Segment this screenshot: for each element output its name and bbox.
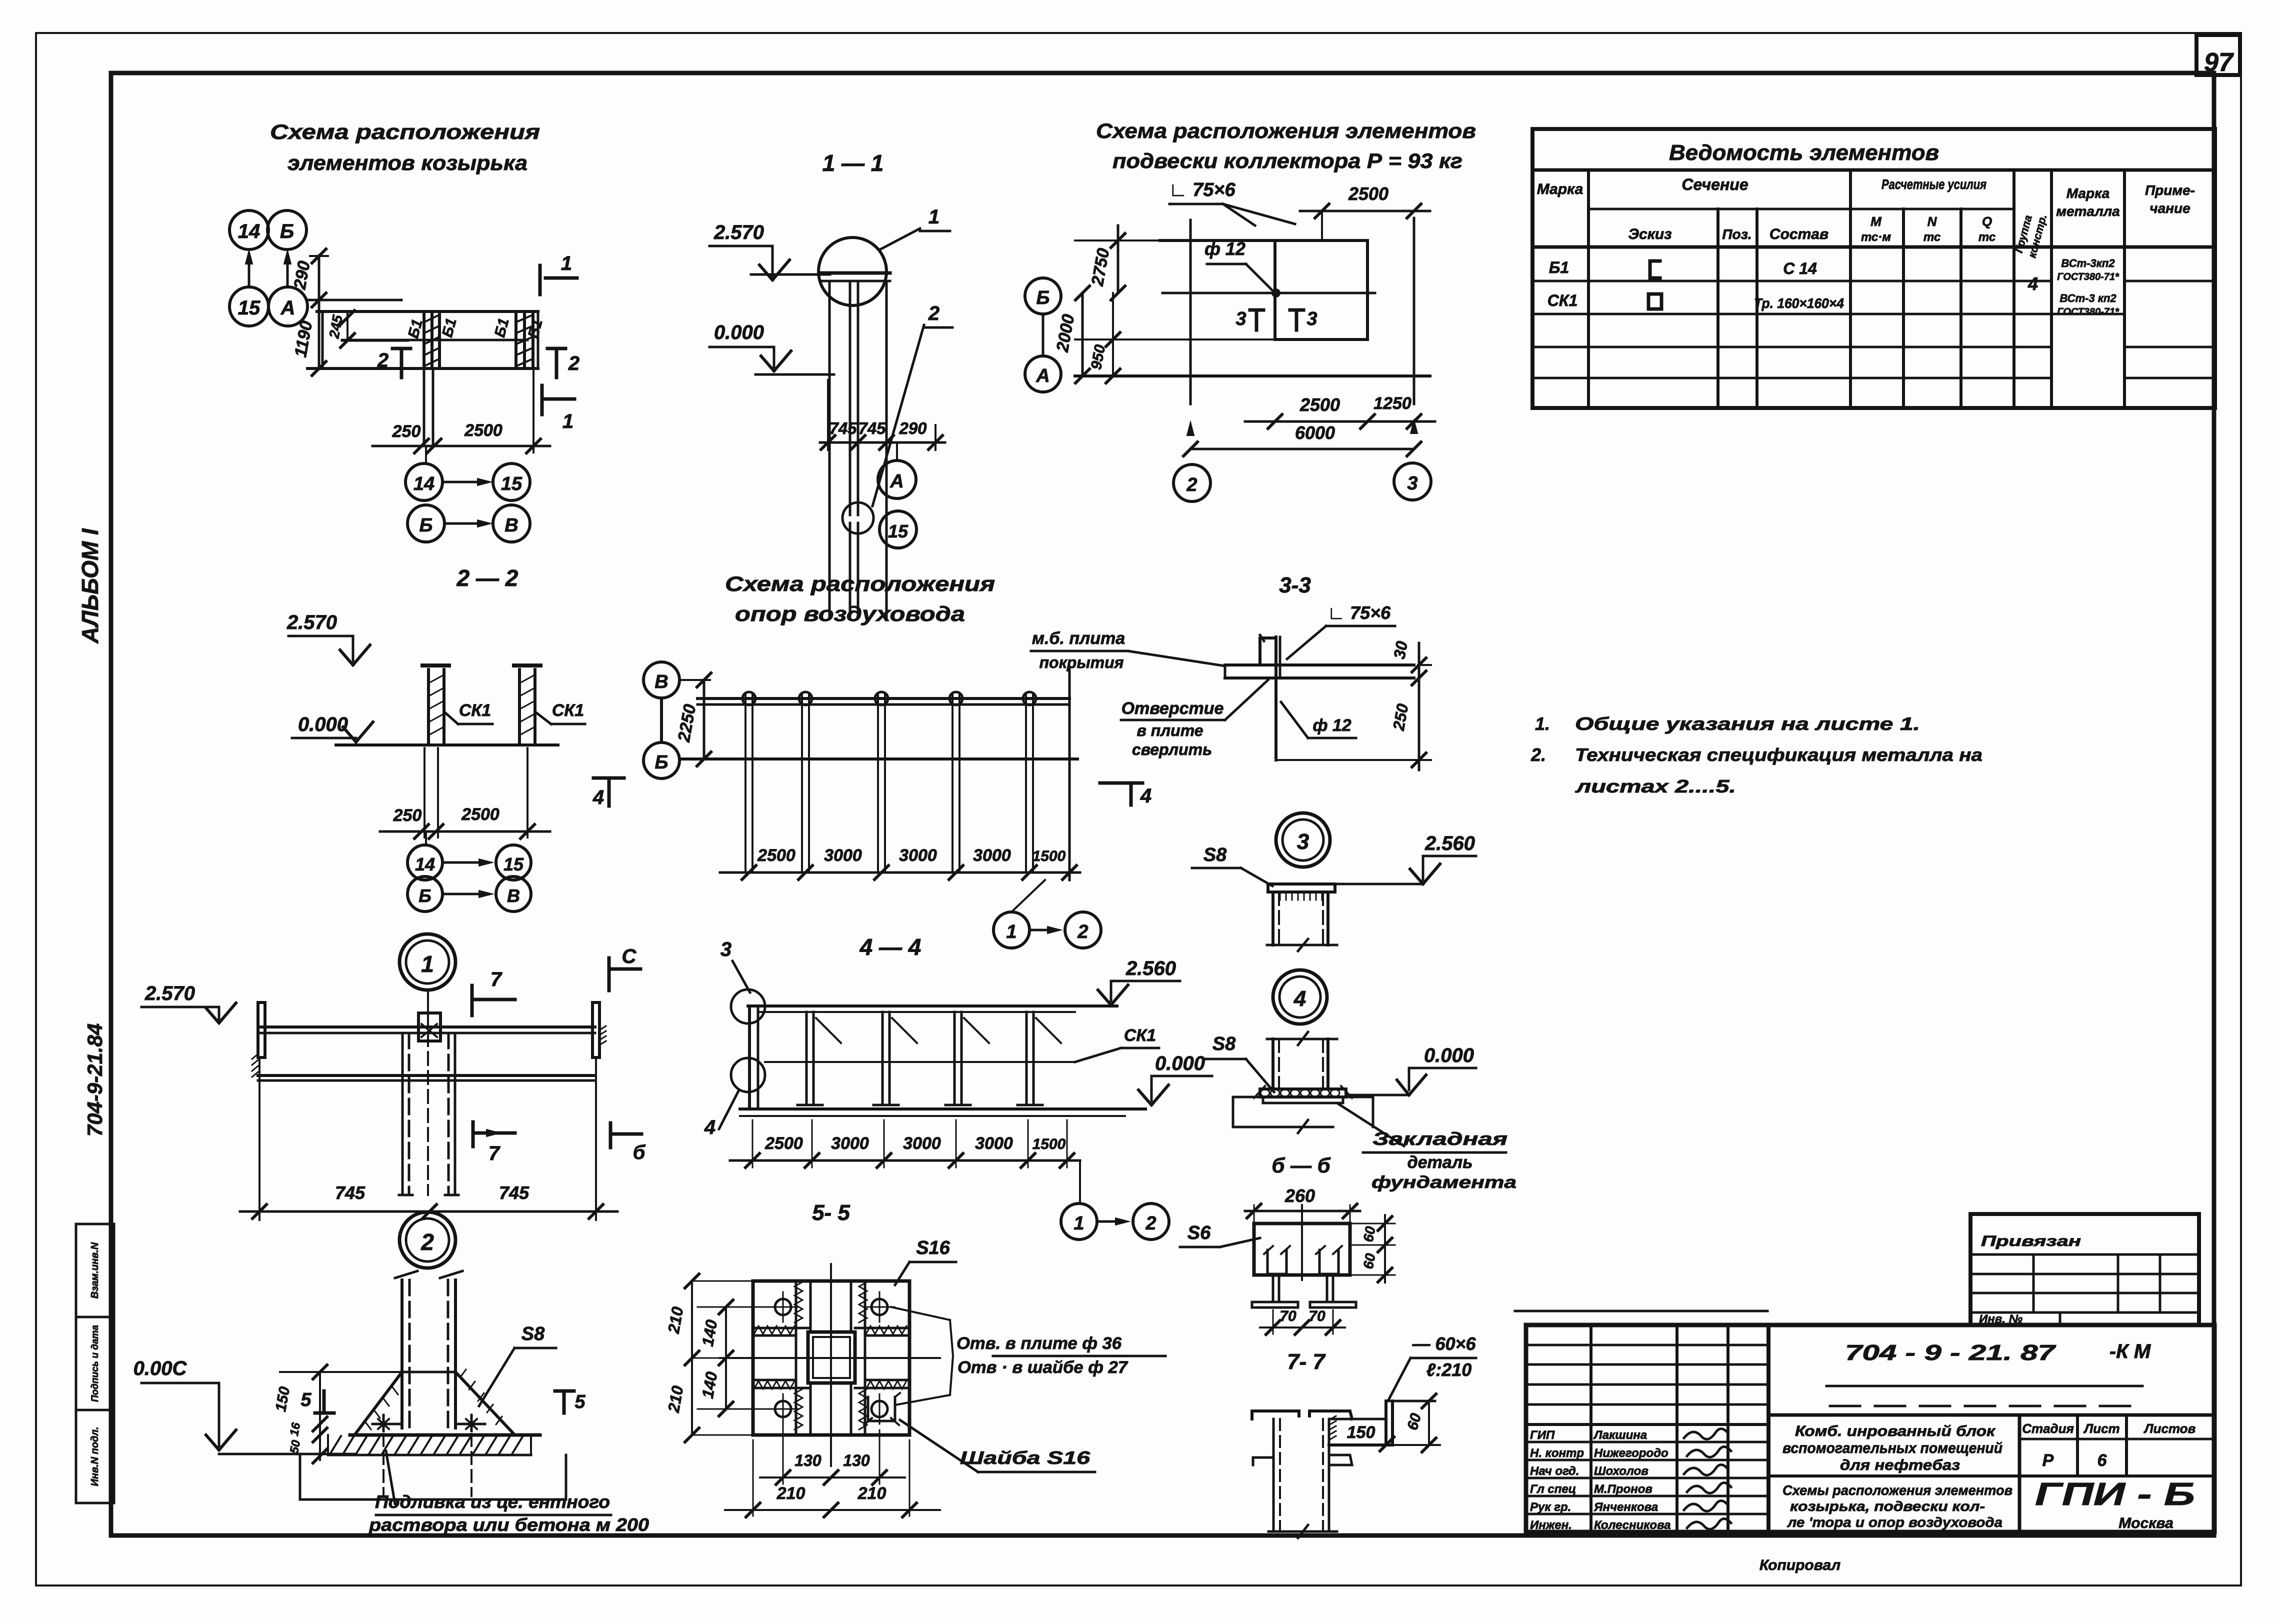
left gusset slope — [356, 1372, 402, 1433]
section mark 1 bottom — [540, 385, 544, 414]
svg-text:Поз.: Поз. — [1722, 226, 1751, 242]
bottom dims 130 130 210 210 — [782, 1419, 784, 1484]
svg-text:Расчетные усилия: Расчетные усилия — [1881, 176, 1986, 192]
dim 2500 top — [1300, 210, 1430, 212]
svg-text:5- 5: 5- 5 — [812, 1200, 850, 1225]
svg-text:1 — 1: 1 — 1 — [822, 150, 884, 176]
svg-text:Колесникова: Колесникова — [1594, 1518, 1671, 1532]
title row underline — [1532, 168, 2215, 172]
svg-text:Отв · в шайбе ф 27: Отв · в шайбе ф 27 — [957, 1358, 1128, 1377]
axis circle 14 — [229, 210, 268, 249]
svg-text:Рук гр.: Рук гр. — [1530, 1500, 1571, 1514]
bottom dims 745 745 290 — [820, 441, 945, 444]
bottom dims 2500 1250 — [1245, 420, 1435, 423]
detail circle 4 — [1273, 970, 1327, 1024]
svg-text:4: 4 — [1140, 785, 1151, 807]
plan left edge — [321, 311, 324, 368]
svg-text:S8: S8 — [1203, 844, 1227, 865]
top line — [1160, 239, 1367, 242]
svg-text:4: 4 — [1293, 986, 1306, 1011]
svg-text:1: 1 — [561, 252, 572, 274]
svg-text:Москва: Москва — [2118, 1515, 2173, 1531]
axis circle A2 — [1025, 356, 1061, 392]
svg-text:Тр. 160×160×4: Тр. 160×160×4 — [1754, 295, 1844, 311]
svg-text:15: 15 — [503, 854, 524, 874]
square tube sketch — [1648, 294, 1661, 309]
svg-text:Комб. инрованный блок: Комб. инрованный блок — [1795, 1423, 1996, 1439]
left column of 4-4 — [748, 1006, 751, 1109]
svg-text:А: А — [1035, 365, 1049, 386]
signatures squiggles — [1684, 1428, 1728, 1439]
inner tube square — [808, 1332, 855, 1383]
extension below posts — [423, 748, 425, 837]
svg-text:7- 7: 7- 7 — [1287, 1349, 1326, 1374]
svg-text:S6: S6 — [1187, 1222, 1211, 1243]
dim 250 2500 — [380, 830, 550, 833]
svg-text:745: 745 — [335, 1182, 365, 1203]
break mark — [1298, 1032, 1308, 1045]
lower T profiles — [1272, 1275, 1274, 1302]
svg-text:704 - 9 - 21. 87: 704 - 9 - 21. 87 — [1845, 1340, 2057, 1365]
svg-text:Б: Б — [655, 752, 668, 773]
circle 15 below — [879, 511, 916, 548]
svg-text:1: 1 — [1073, 1213, 1084, 1234]
svg-text:Сечение: Сечение — [1681, 175, 1748, 193]
svg-text:раствора или бетона м 200: раствора или бетона м 200 — [368, 1514, 649, 1535]
left dims 210 140 140 210 — [691, 1281, 693, 1435]
svg-text:АЛЬБОМ I: АЛЬБОМ I — [77, 528, 103, 644]
header bottom line — [1532, 245, 2215, 249]
svg-text:Схемы расположения элементов: Схемы расположения элементов — [1782, 1482, 2012, 1498]
detail circle 3 — [1276, 813, 1330, 867]
circle A below — [878, 460, 916, 498]
svg-text:N: N — [1927, 214, 1937, 229]
base plate — [350, 1433, 540, 1437]
column tubes — [828, 281, 831, 617]
label 4 with detail circle — [731, 1058, 765, 1092]
dim 6000 — [1190, 448, 1414, 450]
vertical dims 150 16 50 — [319, 1372, 321, 1460]
dim 290 vertical — [318, 256, 320, 368]
svg-text:70: 70 — [1308, 1308, 1325, 1324]
name grid rows lower — [1526, 1441, 1768, 1443]
svg-text:3: 3 — [1306, 308, 1317, 329]
svg-text:60: 60 — [1360, 1225, 1378, 1243]
axis circle 2 — [1173, 464, 1210, 501]
svg-text:ГОСТ380-71*: ГОСТ380-71* — [2057, 271, 2119, 282]
svg-text:2.570: 2.570 — [286, 611, 337, 633]
svg-text:5: 5 — [574, 1391, 585, 1412]
svg-text:7: 7 — [488, 1142, 500, 1164]
svg-text:97: 97 — [2204, 48, 2234, 77]
vertical axes 2 and 3 — [1189, 220, 1192, 404]
section mark b lower — [609, 1123, 612, 1147]
section mark 5 right — [562, 1391, 566, 1413]
svg-text:50: 50 — [287, 1439, 303, 1455]
svg-text:S8: S8 — [521, 1323, 545, 1344]
svg-text:6: 6 — [2097, 1451, 2107, 1470]
svg-text:Шохолов: Шохолов — [1594, 1464, 1648, 1478]
svg-text:ℓ:210: ℓ:210 — [1426, 1359, 1472, 1380]
svg-text:Техническая спецификация мет: Техническая спецификация металла на — [1575, 744, 1982, 765]
axis from circle 1 — [427, 990, 429, 1027]
privyazan stamp box — [1970, 1214, 2199, 1325]
svg-text:Б: Б — [418, 885, 431, 906]
slab — [1225, 663, 1414, 666]
axis circle A — [268, 287, 307, 326]
svg-text:С 14: С 14 — [1783, 259, 1817, 277]
svg-text:Схема расположения: Схема расположения — [725, 572, 995, 595]
svg-text:S8: S8 — [1212, 1033, 1236, 1054]
svg-text:б: б — [633, 1141, 646, 1163]
svg-text:Инв.N подл.: Инв.N подл. — [89, 1427, 100, 1486]
dim 1190 vertical — [312, 361, 326, 375]
plan inner line — [342, 339, 527, 341]
svg-text:2500: 2500 — [757, 846, 795, 865]
svg-text:60: 60 — [1360, 1252, 1378, 1270]
dim 60 — [1428, 1401, 1430, 1445]
svg-text:Н. контр: Н. контр — [1530, 1446, 1584, 1460]
svg-text:Р: Р — [2042, 1451, 2054, 1470]
svg-text:подвески коллектора Р = 93: подвески коллектора Р = 93 кг — [1112, 149, 1462, 172]
svg-text:3: 3 — [1297, 829, 1309, 854]
ground line — [740, 1107, 1145, 1110]
svg-text:В: В — [507, 885, 520, 906]
svg-text:3: 3 — [720, 938, 731, 960]
right end plate — [592, 1002, 599, 1057]
svg-text:2.560: 2.560 — [1424, 832, 1475, 854]
posts — [805, 1012, 808, 1105]
weld hatches 7-7 — [1329, 1416, 1336, 1420]
svg-text:70: 70 — [1279, 1308, 1296, 1324]
svg-text:СК1: СК1 — [459, 701, 491, 720]
svg-text:30: 30 — [1390, 639, 1411, 660]
svg-text:Взам.инв.N: Взам.инв.N — [89, 1242, 100, 1298]
svg-text:14: 14 — [415, 854, 435, 874]
svg-text:м.б. плита: м.б. плита — [1032, 629, 1125, 648]
svg-text:5: 5 — [300, 1389, 311, 1410]
svg-text:В: В — [654, 671, 668, 692]
axis circle 15 — [229, 287, 268, 326]
svg-text:2.: 2. — [1530, 744, 1546, 765]
angle and hanger — [1260, 638, 1276, 665]
svg-text:2500: 2500 — [461, 805, 499, 824]
horizontal line left of stamp — [1515, 1310, 1767, 1312]
svg-text:2: 2 — [1077, 921, 1088, 942]
tube d4 — [1271, 1039, 1274, 1089]
svg-text:ф 12: ф 12 — [1312, 716, 1351, 735]
svg-text:ГПИ - Б: ГПИ - Б — [2035, 1476, 2195, 1512]
diagonal brace — [816, 1018, 841, 1043]
svg-text:250: 250 — [392, 422, 421, 441]
dim line — [730, 1159, 1080, 1162]
svg-text:опор воздуховода: опор воздуховода — [735, 602, 965, 625]
dim 745 745 — [258, 1060, 260, 1220]
beam bottom flange — [258, 1074, 595, 1077]
svg-text:4: 4 — [592, 786, 604, 808]
svg-text:Стадия: Стадия — [2022, 1421, 2074, 1436]
svg-text:ВСт-3кп2: ВСт-3кп2 — [2061, 257, 2115, 269]
connector — [425, 831, 427, 845]
svg-text:Q: Q — [1982, 214, 1992, 229]
svg-text:Нижегородо: Нижегородо — [1594, 1446, 1668, 1460]
svg-text:Марка: Марка — [1537, 181, 1583, 197]
hanger lines below beam — [401, 1033, 404, 1195]
leader bracket to holes text — [891, 1307, 950, 1320]
svg-text:3000: 3000 — [903, 1134, 941, 1153]
svg-text:15: 15 — [888, 521, 908, 541]
svg-text:6000: 6000 — [1295, 422, 1335, 443]
name grid columns — [1589, 1325, 1592, 1532]
svg-text:∟ 75×6: ∟ 75×6 — [1168, 179, 1235, 200]
chords — [697, 697, 1069, 700]
svg-text:чание: чание — [2149, 200, 2190, 216]
svg-text:в плите: в плите — [1136, 721, 1203, 739]
svg-text:Состав: Состав — [1769, 226, 1828, 242]
svg-text:150: 150 — [1347, 1423, 1375, 1442]
svg-text:Инжен.: Инжен. — [1530, 1518, 1572, 1532]
posts with circles — [744, 695, 746, 872]
svg-text:Б1: Б1 — [1549, 258, 1569, 276]
lower small flanges — [1253, 1457, 1273, 1465]
svg-text:ГИП: ГИП — [1530, 1428, 1555, 1442]
tube d3 — [1271, 892, 1274, 945]
svg-text:Копировал: Копировал — [1759, 1557, 1841, 1573]
cap — [422, 663, 449, 667]
svg-text:Б: Б — [419, 515, 433, 536]
svg-text:тс: тс — [1923, 230, 1940, 244]
svg-text:0.000: 0.000 — [1155, 1052, 1205, 1074]
svg-text:М.Пронов: М.Пронов — [1594, 1482, 1652, 1496]
svg-text:3: 3 — [1407, 473, 1417, 494]
bolt holes — [775, 1299, 791, 1315]
svg-text:С: С — [622, 945, 637, 967]
svg-text:2: 2 — [1145, 1213, 1156, 1234]
svg-text:0.000: 0.000 — [1424, 1044, 1474, 1066]
svg-text:Ведомость элементов: Ведомость элементов — [1669, 140, 1939, 165]
svg-text:15: 15 — [501, 473, 522, 494]
svg-text:Лист: Лист — [2083, 1421, 2119, 1436]
svg-text:16: 16 — [287, 1421, 303, 1437]
svg-text:130: 130 — [843, 1451, 870, 1469]
dim line bottom — [720, 871, 1080, 874]
svg-text:ГОСТ380-71*: ГОСТ380-71* — [2057, 306, 2119, 317]
svg-text:Б: Б — [280, 220, 294, 242]
circles B-V pair — [407, 505, 444, 542]
break mark — [395, 1271, 417, 1278]
zigzag weld hatches — [754, 1326, 794, 1334]
washer detail bottom-right — [871, 1401, 887, 1417]
plate outline — [753, 1281, 909, 1435]
section mark 7 lower — [471, 1122, 475, 1146]
svg-text:б — б: б — б — [1271, 1153, 1330, 1177]
slab lines through circle — [751, 273, 830, 276]
arrow 15 to 14 — [248, 255, 250, 287]
svg-text:Отверстие: Отверстие — [1121, 699, 1224, 718]
center lines — [830, 1264, 832, 1466]
svg-text:1: 1 — [928, 206, 939, 228]
weld seams horizontal — [753, 1327, 808, 1329]
svg-text:ВСт-3 кп2: ВСт-3 кп2 — [2059, 292, 2116, 304]
svg-text:2500: 2500 — [1348, 183, 1388, 204]
svg-text:Шайба S16: Шайба S16 — [960, 1447, 1090, 1468]
svg-text:1500: 1500 — [1032, 1136, 1066, 1152]
svg-text:3000: 3000 — [973, 846, 1011, 865]
foundation outline — [299, 1455, 301, 1499]
svg-text:1.: 1. — [1535, 713, 1550, 734]
svg-text:Подливка из це. ентного: Подливка из це. ентного — [375, 1491, 610, 1512]
cap plate d3 — [1268, 884, 1335, 892]
center splice plate — [418, 1013, 440, 1041]
svg-text:Приме-: Приме- — [2145, 182, 2195, 198]
right end post — [1068, 669, 1071, 880]
svg-text:СК1: СК1 — [1547, 291, 1578, 309]
svg-text:2: 2 — [568, 352, 579, 374]
svg-text:сверлить: сверлить — [1132, 740, 1212, 758]
svg-text:1: 1 — [421, 951, 434, 977]
svg-text:тс: тс — [1978, 230, 1995, 244]
svg-text:704-9-21.84: 704-9-21.84 — [83, 1023, 106, 1137]
title block outline — [1526, 1325, 2214, 1532]
svg-text:фундамента: фундамента — [1371, 1173, 1516, 1192]
right gusset slope — [455, 1372, 513, 1433]
axis circle B — [267, 210, 306, 249]
svg-text:3: 3 — [1235, 308, 1246, 329]
svg-text:210: 210 — [857, 1484, 886, 1503]
svg-text:3000: 3000 — [824, 846, 862, 865]
svg-text:Закладная: Закладная — [1372, 1128, 1507, 1149]
svg-text:0.000: 0.000 — [298, 713, 348, 735]
axis circles V B — [643, 662, 679, 698]
podlivka text — [386, 1451, 395, 1504]
base plate d4 — [1260, 1089, 1346, 1097]
anchor bolts — [372, 1423, 400, 1425]
svg-text:2: 2 — [420, 1229, 434, 1255]
svg-text:2.570: 2.570 — [713, 221, 764, 243]
svg-text:0.00С: 0.00С — [133, 1357, 187, 1379]
channel strip B1 right — [514, 311, 517, 368]
svg-text:для нефтебаз: для нефтебаз — [1840, 1457, 1960, 1473]
svg-text:В: В — [504, 515, 518, 536]
svg-text:250: 250 — [393, 806, 422, 825]
circles 1-2 — [993, 912, 1029, 948]
centerline — [427, 1033, 429, 1195]
svg-text:Нач огд.: Нач огд. — [1530, 1464, 1579, 1478]
svg-text:элементов козырька: элементов козырька — [287, 151, 527, 174]
svg-text:покрытия: покрытия — [1039, 653, 1123, 671]
bottom dims 70 70 — [1272, 1310, 1274, 1334]
svg-text:Гл спец: Гл спец — [1530, 1482, 1576, 1496]
beam top flange — [258, 1025, 595, 1028]
svg-text:1: 1 — [562, 410, 573, 432]
svg-text:260: 260 — [1284, 1185, 1315, 1206]
inner angles — [1267, 1250, 1286, 1274]
svg-text:745: 745 — [499, 1182, 529, 1203]
svg-text:-К М: -К М — [2109, 1340, 2151, 1362]
svg-text:2: 2 — [1186, 474, 1197, 495]
SK1 line and label — [765, 1061, 1075, 1063]
svg-text:290: 290 — [898, 419, 927, 437]
axis circle 3 — [1394, 463, 1431, 500]
svg-text:Листов: Листов — [2143, 1421, 2196, 1436]
strip B1 left extension below — [423, 368, 425, 446]
foundation d4 — [1232, 1097, 1234, 1127]
left margin stamp boxes — [76, 1224, 114, 1317]
svg-text:2500: 2500 — [464, 421, 502, 440]
channel profile sketch — [1650, 261, 1660, 278]
svg-text:1500: 1500 — [1032, 848, 1066, 864]
svg-text:Общие указания на листе 1.: Общие указания на листе 1. — [1575, 713, 1920, 734]
stage sheet columns — [2018, 1415, 2021, 1532]
axis circle B2 — [1025, 278, 1061, 314]
svg-text:7: 7 — [490, 968, 502, 990]
svg-text:2500: 2500 — [764, 1134, 803, 1153]
svg-text:14: 14 — [413, 473, 434, 494]
weld seams vertical — [795, 1281, 797, 1435]
detail circle 1 (beam) — [399, 934, 455, 990]
left dims 2750 2000 950 — [1117, 225, 1119, 293]
svg-text:1: 1 — [1006, 921, 1016, 942]
page number box 97 — [2196, 35, 2240, 75]
section mark 4 left — [593, 776, 624, 780]
table Vedomost elementov — [1532, 129, 2215, 408]
circles B-V — [407, 876, 442, 911]
svg-text:Схема расположения: Схема расположения — [270, 120, 540, 143]
right dims 60 60 — [1350, 1223, 1395, 1224]
collector circle — [818, 237, 886, 305]
arrow A to B — [286, 255, 289, 287]
left end plate — [258, 1002, 265, 1057]
svg-text:4: 4 — [2027, 273, 2038, 294]
beam section top flanges — [1252, 1411, 1299, 1419]
right dims 30 250 — [1418, 643, 1420, 770]
base line — [336, 743, 558, 746]
svg-text:Эскиз: Эскиз — [1628, 226, 1671, 242]
break line d3 — [1267, 944, 1337, 946]
circles 14-15 pair — [405, 463, 442, 500]
svg-text:210: 210 — [776, 1484, 805, 1503]
svg-text:А: А — [280, 297, 295, 319]
svg-text:1250: 1250 — [1373, 394, 1411, 413]
bottom break — [1268, 1530, 1337, 1533]
mid line — [1162, 292, 1375, 294]
svg-text:15: 15 — [238, 297, 260, 319]
svg-text:0.000: 0.000 — [714, 321, 764, 343]
svg-text:2.570: 2.570 — [144, 982, 195, 1004]
dim line 250 2500 — [372, 445, 550, 447]
svg-text:Лакшина: Лакшина — [1593, 1428, 1647, 1442]
bracket plate — [1329, 1418, 1386, 1420]
circles 14-15 — [407, 845, 442, 880]
svg-text:Отв. в плите ф 36: Отв. в плите ф 36 — [956, 1334, 1122, 1353]
svg-text:листах 2....5.: листах 2....5. — [1574, 776, 1736, 796]
section mark 7 upper — [470, 985, 474, 1015]
svg-text:3000: 3000 — [831, 1134, 869, 1153]
axis A line — [307, 299, 401, 301]
svg-text:14: 14 — [238, 220, 260, 242]
svg-text:тс·м: тс·м — [1861, 230, 1891, 244]
zakladnaya detail label — [1338, 1104, 1404, 1146]
name grid rows upper — [1526, 1344, 1768, 1346]
svg-text:2500: 2500 — [1299, 394, 1340, 415]
connector to circle 14 — [425, 446, 427, 463]
section mark T4 right — [1100, 781, 1142, 785]
section mark 2 right — [547, 347, 565, 350]
axis B chord — [679, 757, 1077, 760]
svg-text:∟ 75×6: ∟ 75×6 — [1327, 602, 1391, 623]
svg-text:Схема расположения элемент: Схема расположения элементов — [1096, 119, 1476, 142]
svg-text:ле 'тора и опор воздуховода: ле 'тора и опор воздуховода — [1786, 1514, 2002, 1530]
